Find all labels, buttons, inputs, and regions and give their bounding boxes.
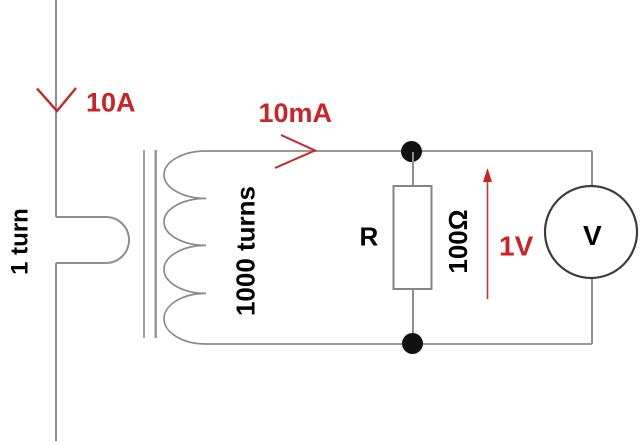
voltmeter V circle — [545, 186, 637, 278]
transformer core line right — [155, 150, 157, 338]
resistor R body — [394, 186, 432, 289]
wire resistor top lead — [412, 152, 414, 186]
wire resistor bottom lead — [412, 289, 414, 343]
node bottom junction — [402, 333, 423, 354]
transformer core line left — [143, 150, 145, 338]
svg-text:V: V — [583, 220, 602, 251]
svg-text:1000 turns: 1000 turns — [230, 186, 260, 316]
svg-text:10A: 10A — [86, 88, 136, 118]
arrow 10A current direction — [37, 88, 76, 111]
secondary coil winding with top and bottom wires — [164, 151, 592, 344]
svg-text:100Ω: 100Ω — [443, 209, 473, 273]
svg-text:1V: 1V — [499, 231, 534, 262]
primary 1-turn loop bump — [56, 217, 129, 263]
wire voltmeter top lead — [591, 151, 593, 186]
arrow 1V voltage direction — [487, 178, 489, 299]
wire voltmeter bottom lead — [591, 278, 593, 344]
svg-text:R: R — [360, 222, 379, 252]
node top junction — [401, 141, 422, 162]
wire primary bottom segment — [55, 263, 57, 441]
svg-text:10mA: 10mA — [259, 98, 333, 128]
arrow 10mA current direction — [275, 135, 315, 168]
wire primary top segment — [55, 0, 57, 217]
svg-text:1 turn: 1 turn — [7, 208, 34, 275]
